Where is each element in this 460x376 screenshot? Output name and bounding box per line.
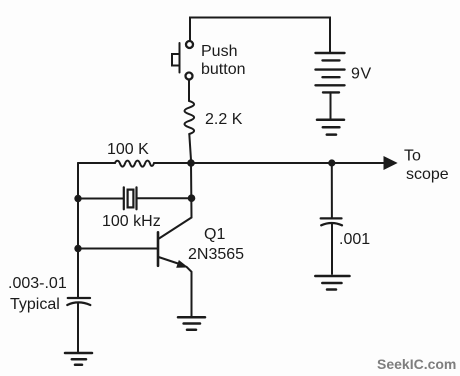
resistor 2.2K [185, 101, 195, 134]
svg-text:button: button [201, 61, 245, 78]
svg-text:.001: .001 [339, 231, 370, 248]
node D junction dot [188, 194, 196, 202]
node B junction dot (crystal line) [74, 195, 81, 202]
wire C2 to ground [331, 224, 333, 275]
wire node A to scope arrow [194, 162, 385, 164]
svg-text:Q1: Q1 [204, 226, 225, 243]
battery 9V plates [316, 53, 345, 92]
push button S1 [172, 41, 193, 80]
ground (battery) [317, 120, 344, 135]
wire crystal left lead [78, 198, 123, 200]
wire scope tap down to C2 [331, 163, 333, 218]
ground (emitter) [178, 317, 205, 330]
wire left rail [77, 163, 79, 297]
ground (C2) [315, 276, 349, 290]
wire 100K left segment [78, 162, 115, 164]
svg-text:9: 9 [351, 66, 360, 83]
svg-text:SeekIC.com: SeekIC.com [377, 356, 456, 372]
wire emitter to ground [187, 267, 192, 316]
svg-text:Typical: Typical [10, 296, 60, 313]
node A junction dot [187, 159, 195, 167]
resistor 100K [115, 161, 154, 167]
svg-text:100 kHz: 100 kHz [102, 213, 161, 230]
node scope-tap junction dot [328, 159, 335, 166]
collector lead [159, 218, 192, 239]
emitter arrowhead [177, 261, 187, 267]
svg-text:2.2 K: 2.2 K [205, 111, 243, 128]
svg-text:2N3565: 2N3565 [188, 246, 244, 263]
wire push button to resistor [188, 80, 190, 101]
wire 100K right segment to node A [154, 162, 188, 164]
base bar [157, 232, 160, 265]
emitter lead [159, 257, 182, 265]
crystal Y1 100 kHz [124, 187, 137, 209]
svg-text:100 K: 100 K [107, 141, 149, 158]
capacitor C1 .003-.01 plates [67, 298, 90, 305]
wire top rail from push button to battery [190, 18, 330, 53]
wire C1 to ground [77, 304, 79, 352]
transistor Q1 2N3565 [158, 218, 192, 268]
wire resistor to node A [189, 134, 191, 160]
node C junction dot (base line) [74, 245, 81, 252]
arrowhead to scope [384, 157, 397, 169]
capacitor C2 .001 plates [321, 218, 342, 225]
svg-text:.003-.01: .003-.01 [8, 275, 67, 292]
wire node A down to collector [190, 163, 193, 218]
wire base from node C [78, 248, 157, 250]
ground (C1) [65, 353, 92, 365]
svg-text:To: To [404, 148, 421, 165]
svg-text:V: V [361, 66, 372, 83]
wire crystal right lead [138, 197, 189, 199]
wire battery to ground [330, 92, 332, 118]
svg-text:Push: Push [201, 43, 237, 60]
svg-text:scope: scope [406, 166, 449, 183]
